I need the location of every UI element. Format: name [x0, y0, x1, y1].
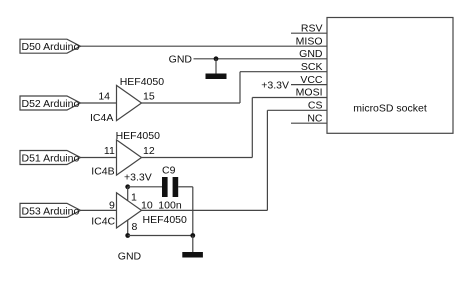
- svg-text:RSV: RSV: [301, 22, 323, 34]
- wire pin 8 of IC4C: [127, 220, 129, 236]
- svg-text:GND: GND: [299, 48, 323, 60]
- svg-text:D53 Arduino: D53 Arduino: [22, 205, 80, 217]
- svg-text:IC4B: IC4B: [91, 166, 114, 178]
- svg-text:12: 12: [143, 145, 155, 157]
- node D53 Arduino: [20, 203, 81, 217]
- wire SCK to pin: [240, 71, 327, 73]
- svg-text:11: 11: [104, 145, 115, 157]
- ground bar top: [206, 74, 227, 80]
- svg-text:8: 8: [132, 221, 138, 233]
- wire pin 1 of IC4C: [127, 187, 129, 201]
- node D50 Arduino: [20, 39, 81, 53]
- wire GND net to pin: [194, 58, 328, 60]
- wire RSV stub: [291, 32, 327, 34]
- node D51 Arduino: [20, 151, 81, 165]
- svg-text:15: 15: [143, 91, 155, 103]
- ground bar bottom: [182, 252, 203, 258]
- svg-text:MOSI: MOSI: [296, 87, 323, 99]
- junction ground rail right: [190, 233, 195, 238]
- svg-text:D52 Arduino: D52 Arduino: [22, 98, 80, 110]
- svg-text:1: 1: [131, 192, 137, 204]
- wire CS: IC4C output: [142, 209, 268, 211]
- svg-text:9: 9: [109, 200, 115, 212]
- wire D51 to IC4B input: [81, 157, 117, 159]
- svg-text:VCC: VCC: [300, 74, 323, 86]
- svg-text:14: 14: [98, 91, 110, 103]
- svg-text:microSD socket: microSD socket: [353, 103, 427, 115]
- wire +3.3V rail to C9: [128, 186, 162, 188]
- wire CS vertical: [266, 110, 268, 210]
- svg-text:GND: GND: [169, 54, 193, 66]
- wire drop to ground bar: [192, 236, 194, 253]
- svg-text:HEF4050: HEF4050: [143, 214, 188, 226]
- svg-text:NC: NC: [307, 112, 323, 124]
- svg-text:D51 Arduino: D51 Arduino: [22, 153, 80, 165]
- wire VCC stub: [291, 84, 327, 86]
- op-amp buffer IC4A: [117, 85, 142, 120]
- svg-text:CS: CS: [308, 100, 323, 112]
- svg-text:IC4C: IC4C: [91, 215, 115, 227]
- junction on GND wire: [214, 56, 219, 61]
- wire ground rail bottom: [128, 235, 193, 237]
- connector microSD socket box: [327, 18, 453, 134]
- wire NC stub: [291, 122, 327, 124]
- svg-text:+3.3V: +3.3V: [124, 171, 152, 183]
- node D52 Arduino: [20, 96, 81, 110]
- svg-text:HEF4050: HEF4050: [116, 130, 161, 142]
- svg-text:HEF4050: HEF4050: [120, 76, 165, 88]
- wire D53 to IC4C input: [81, 209, 117, 211]
- wire SCK: IC4A output: [142, 102, 241, 104]
- wire MOSI vertical: [251, 98, 253, 158]
- capacitor C9: [162, 177, 178, 197]
- wire C9 down to ground rail: [192, 187, 194, 236]
- svg-text:D50 Arduino: D50 Arduino: [22, 41, 80, 53]
- wire C9 right to corner: [178, 186, 193, 188]
- wire MOSI: IC4B output: [142, 157, 253, 159]
- wire CS to pin: [267, 109, 327, 111]
- op-amp buffer IC4C: [117, 193, 142, 228]
- junction +3.3V node: [125, 184, 130, 189]
- wire D50 to MISO pin: [81, 45, 328, 47]
- wire SCK vertical: [239, 72, 241, 103]
- wire GND drop: [215, 59, 217, 74]
- svg-text:C9: C9: [162, 164, 176, 176]
- wire MOSI to pin: [252, 97, 327, 99]
- op-amp buffer IC4B: [117, 140, 142, 175]
- svg-text:+3.3V: +3.3V: [261, 79, 289, 91]
- wire D52 to IC4A input: [81, 102, 117, 104]
- svg-text:GND: GND: [118, 251, 142, 263]
- junction pin8 ground: [125, 233, 130, 238]
- svg-text:100n: 100n: [158, 200, 182, 212]
- svg-text:SCK: SCK: [301, 61, 323, 73]
- svg-text:IC4A: IC4A: [90, 112, 113, 124]
- svg-text:MISO: MISO: [296, 35, 323, 47]
